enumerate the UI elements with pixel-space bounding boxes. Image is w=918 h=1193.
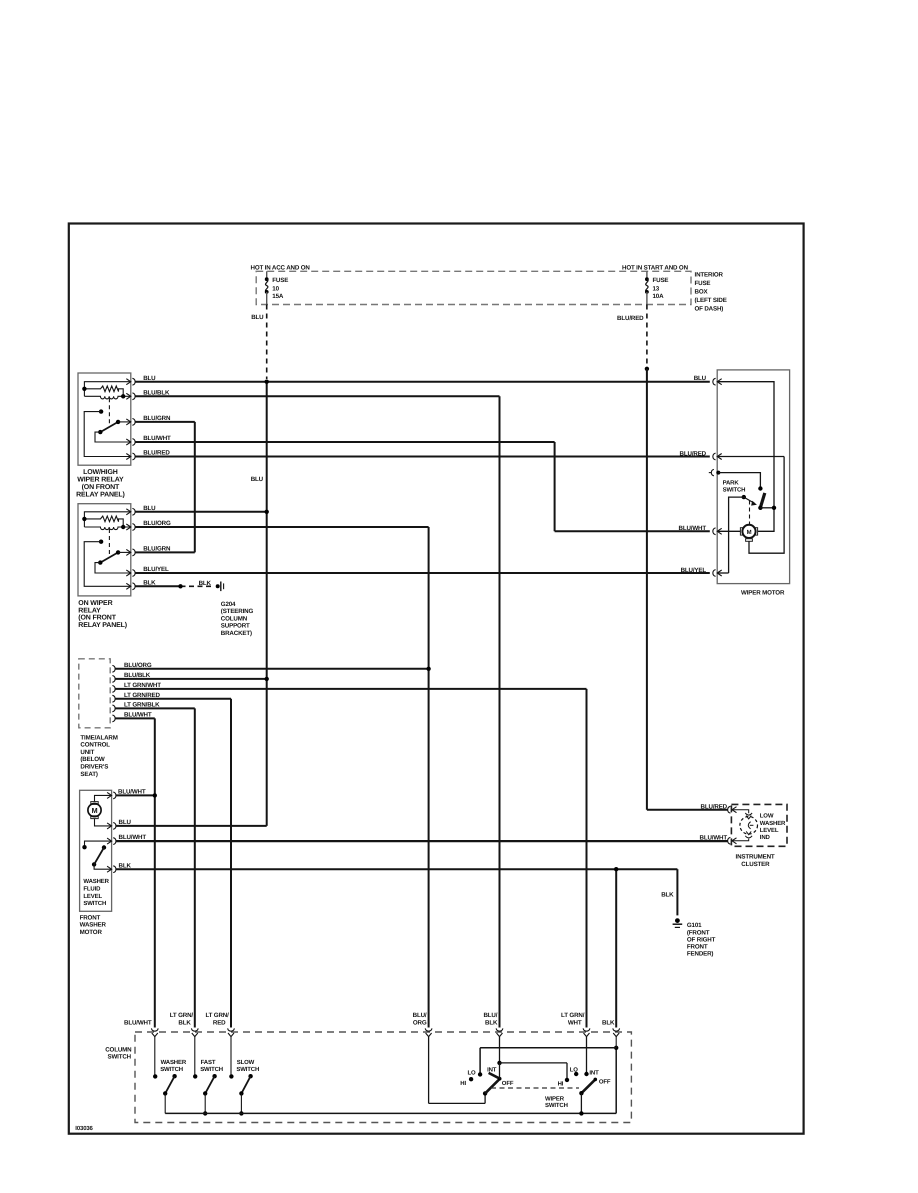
svg-text:BLU/WHT: BLU/WHT <box>700 835 728 842</box>
svg-text:FRONT: FRONT <box>80 914 101 921</box>
svg-text:IND: IND <box>760 834 771 841</box>
svg-text:PARK: PARK <box>723 479 740 486</box>
svg-text:BLU/GRN: BLU/GRN <box>143 546 171 553</box>
svg-text:HOT IN ACC AND ON: HOT IN ACC AND ON <box>251 264 311 271</box>
svg-text:BRACKET): BRACKET) <box>221 630 252 637</box>
svg-text:OF RIGHT: OF RIGHT <box>687 936 716 943</box>
svg-text:(ON FRONT: (ON FRONT <box>82 483 120 491</box>
svg-text:LT GRN/RED: LT GRN/RED <box>124 692 161 699</box>
svg-text:DRIVER'S: DRIVER'S <box>80 764 108 771</box>
svg-text:BLU/RED: BLU/RED <box>680 450 707 457</box>
svg-text:M: M <box>92 806 98 815</box>
svg-text:LO: LO <box>570 1067 579 1074</box>
svg-text:BLK: BLK <box>199 580 212 587</box>
svg-text:BOX: BOX <box>695 289 709 296</box>
svg-text:SUPPORT: SUPPORT <box>221 623 250 630</box>
svg-text:BLK: BLK <box>178 1020 191 1027</box>
svg-text:10: 10 <box>272 285 279 292</box>
svg-text:LOW: LOW <box>760 813 774 820</box>
svg-text:SWITCH: SWITCH <box>160 1066 183 1073</box>
svg-text:BLU/WHT: BLU/WHT <box>679 525 707 532</box>
svg-text:LT GRN/: LT GRN/ <box>205 1012 229 1019</box>
svg-text:BLU/ORG: BLU/ORG <box>143 520 171 527</box>
svg-text:BLK: BLK <box>143 579 156 586</box>
svg-text:G204: G204 <box>221 601 236 608</box>
svg-text:FUSE: FUSE <box>695 280 711 287</box>
svg-text:BLU: BLU <box>143 375 156 382</box>
svg-text:BLU/YEL: BLU/YEL <box>681 567 707 574</box>
svg-text:BLU/WHT: BLU/WHT <box>118 789 146 796</box>
svg-text:BLU: BLU <box>251 314 264 321</box>
svg-text:BLU: BLU <box>251 476 264 483</box>
svg-text:I03036: I03036 <box>75 1125 93 1132</box>
svg-text:FENDER): FENDER) <box>687 951 714 958</box>
svg-text:LT GRN/: LT GRN/ <box>561 1012 585 1019</box>
svg-text:LEVEL: LEVEL <box>83 893 102 900</box>
svg-text:G101: G101 <box>687 922 702 929</box>
svg-text:(LEFT SIDE: (LEFT SIDE <box>695 297 727 304</box>
svg-text:BLU/: BLU/ <box>413 1012 427 1019</box>
svg-text:(FRONT: (FRONT <box>687 929 710 936</box>
svg-text:SWITCH: SWITCH <box>200 1066 223 1073</box>
svg-text:UNIT: UNIT <box>80 749 94 756</box>
svg-text:SWITCH: SWITCH <box>545 1102 568 1109</box>
svg-text:FLUID: FLUID <box>83 885 101 892</box>
svg-text:INT: INT <box>589 1069 599 1076</box>
svg-text:BLU/GRN: BLU/GRN <box>143 415 171 422</box>
svg-text:LEVEL: LEVEL <box>760 827 779 834</box>
svg-text:WASHER: WASHER <box>161 1059 187 1066</box>
svg-text:SWITCH: SWITCH <box>236 1066 259 1073</box>
svg-text:OFF: OFF <box>502 1080 514 1087</box>
svg-text:BLU/WHT: BLU/WHT <box>124 1020 152 1027</box>
svg-text:INTERIOR: INTERIOR <box>695 272 724 279</box>
svg-text:CLUSTER: CLUSTER <box>741 861 770 868</box>
svg-text:BLU/BLK: BLU/BLK <box>124 672 151 679</box>
svg-text:BLK: BLK <box>119 862 132 869</box>
svg-text:SWITCH: SWITCH <box>83 900 106 907</box>
svg-text:WASHER: WASHER <box>83 878 109 885</box>
svg-text:INT: INT <box>487 1067 497 1074</box>
svg-text:BLU/BLK: BLU/BLK <box>143 389 170 396</box>
svg-text:BLU/RED: BLU/RED <box>617 315 644 322</box>
svg-text:ON WIPER: ON WIPER <box>78 600 112 607</box>
svg-text:M: M <box>747 529 752 536</box>
svg-text:MOTOR: MOTOR <box>80 929 103 936</box>
svg-text:SWITCH: SWITCH <box>107 1054 131 1061</box>
svg-text:OF DASH): OF DASH) <box>695 306 724 313</box>
svg-text:FUSE: FUSE <box>653 277 669 284</box>
svg-text:WIPER: WIPER <box>545 1095 565 1102</box>
svg-text:WHT: WHT <box>568 1020 582 1027</box>
svg-text:RELAY: RELAY <box>78 607 101 614</box>
svg-text:BLU/WHT: BLU/WHT <box>124 712 152 719</box>
svg-text:WASHER: WASHER <box>760 820 786 827</box>
svg-text:BLK: BLK <box>602 1020 615 1027</box>
svg-text:BLK: BLK <box>485 1020 498 1027</box>
svg-text:COLUMN: COLUMN <box>105 1046 132 1053</box>
svg-text:BLU/RED: BLU/RED <box>143 450 170 457</box>
svg-text:SWITCH: SWITCH <box>723 486 746 493</box>
svg-text:RELAY PANEL): RELAY PANEL) <box>76 490 125 498</box>
svg-text:BLK: BLK <box>661 892 674 899</box>
svg-text:INSTRUMENT: INSTRUMENT <box>736 853 775 860</box>
svg-text:(ON FRONT: (ON FRONT <box>78 614 116 622</box>
svg-text:HI: HI <box>460 1080 466 1087</box>
svg-text:LT GRN/BLK: LT GRN/BLK <box>124 702 160 709</box>
svg-text:BLU: BLU <box>119 819 132 826</box>
svg-text:13: 13 <box>653 285 660 292</box>
svg-text:WIPER RELAY: WIPER RELAY <box>77 477 124 484</box>
svg-text:HI: HI <box>558 1080 564 1087</box>
svg-text:15A: 15A <box>272 293 284 300</box>
svg-text:BLU/WHT: BLU/WHT <box>143 435 171 442</box>
svg-text:SLOW: SLOW <box>237 1059 255 1066</box>
svg-text:BLU/YEL: BLU/YEL <box>143 566 169 573</box>
svg-text:WASHER: WASHER <box>80 922 107 929</box>
svg-text:FAST: FAST <box>201 1059 216 1066</box>
svg-text:BLU/: BLU/ <box>483 1012 497 1019</box>
svg-text:SEAT): SEAT) <box>80 771 97 778</box>
svg-text:LT GRN/: LT GRN/ <box>170 1012 194 1019</box>
svg-text:HOT IN START AND ON: HOT IN START AND ON <box>622 264 689 271</box>
svg-text:BLU/RED: BLU/RED <box>701 804 728 811</box>
svg-text:BLU/WHT: BLU/WHT <box>119 834 147 841</box>
svg-text:RED: RED <box>213 1020 226 1027</box>
svg-text:LT GRN/WHT: LT GRN/WHT <box>124 682 161 689</box>
svg-text:BLU/ORG: BLU/ORG <box>124 662 152 669</box>
svg-text:BLU: BLU <box>694 375 707 382</box>
svg-text:COLUMN: COLUMN <box>221 615 248 622</box>
svg-text:BLU: BLU <box>143 505 156 512</box>
svg-text:TIME/ALARM: TIME/ALARM <box>80 734 117 741</box>
svg-text:(BELOW: (BELOW <box>80 756 104 763</box>
svg-text:ORG: ORG <box>413 1020 427 1027</box>
svg-text:LO: LO <box>467 1069 476 1076</box>
svg-text:(STEERING: (STEERING <box>221 608 254 615</box>
svg-text:OFF: OFF <box>599 1079 611 1086</box>
svg-text:10A: 10A <box>653 293 665 300</box>
svg-text:FUSE: FUSE <box>272 277 288 284</box>
svg-text:LOW/HIGH: LOW/HIGH <box>83 468 118 476</box>
svg-text:CONTROL: CONTROL <box>80 742 110 749</box>
svg-text:RELAY PANEL): RELAY PANEL) <box>78 621 127 629</box>
svg-text:FRONT: FRONT <box>687 944 708 951</box>
svg-text:WIPER MOTOR: WIPER MOTOR <box>741 590 785 597</box>
